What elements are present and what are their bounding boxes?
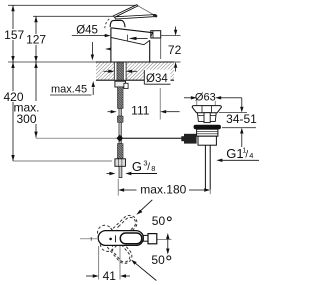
handle loop top edge: [138, 6, 155, 16]
dimension 111: [108, 111, 111, 113]
spout inner line: [111, 37, 144, 44]
dimension 157: [12, 5, 14, 29]
svg-text:34-51: 34-51: [226, 112, 257, 126]
rod junction dot: [116, 135, 123, 142]
waste lower body: [198, 136, 216, 145]
svg-text:/: /: [245, 149, 248, 160]
deck cross-section: [96, 62, 174, 80]
svg-text:G1: G1: [226, 146, 243, 161]
dimension 41: [98, 246, 100, 280]
extension line 420 bottom: [13, 160, 112, 162]
dimension 34-51: [229, 97, 242, 99]
label G1 1/4: [216, 159, 222, 162]
dashed lever rotated down: [94, 222, 134, 266]
svg-text:157: 157: [4, 28, 24, 42]
deck hole: [114, 63, 126, 80]
spout flow arrow: [135, 37, 148, 39]
extension line top of body (127): [33, 15, 119, 17]
tailpipe: [204, 145, 206, 189]
extension line deck top (left): [8, 61, 110, 63]
svg-text:G: G: [132, 159, 142, 174]
shank through deck: [117, 62, 124, 80]
svg-text:Ø45: Ø45: [76, 24, 98, 36]
hose column: [117, 87, 123, 109]
rod clamp: [184, 134, 197, 144]
cartridge tick: [126, 35, 128, 42]
svg-text:111: 111: [131, 103, 150, 117]
spout outlet extension line: [160, 38, 162, 59]
cartridge dome: [110, 20, 125, 27]
cartridge line: [115, 235, 117, 242]
svg-text:/: /: [147, 162, 150, 173]
handle lower blade: [115, 15, 156, 19]
svg-text:127: 127: [26, 33, 46, 47]
hose nut: [115, 159, 126, 167]
mounting nut: [115, 81, 126, 87]
hose tail: [119, 166, 122, 177]
svg-text:max.45: max.45: [51, 84, 87, 96]
dimension max.180: [117, 179, 119, 196]
extension line top of handle (157): [8, 4, 137, 6]
dashed lever rotated up: [97, 212, 140, 254]
dimension 127: [35, 16, 37, 34]
svg-text:Ø63: Ø63: [195, 91, 216, 103]
angle arrow lower: [136, 263, 157, 280]
svg-text:Ø34: Ø34: [146, 73, 168, 85]
angle arrow upper: [139, 200, 152, 212]
dimension max.300: [35, 62, 37, 101]
svg-text:300: 300: [16, 112, 36, 126]
waste upper body: [197, 129, 218, 136]
svg-text:50: 50: [152, 214, 166, 228]
aerator: [151, 31, 161, 38]
svg-text:4: 4: [249, 151, 253, 160]
label G3/8: [107, 173, 110, 175]
dimension 72: [161, 35, 181, 37]
lever slot: [120, 233, 142, 244]
handle loop end: [152, 13, 157, 18]
svg-text:max.180: max.180: [140, 183, 186, 197]
lever top view: [98, 231, 143, 246]
centerline left: [80, 238, 97, 240]
svg-text:41: 41: [103, 269, 117, 283]
label max.45: [50, 84, 91, 94]
body edge mark: [105, 48, 111, 51]
aerator swivel arrow: [167, 239, 169, 249]
aerator top: [148, 234, 157, 244]
waste seal ring: [194, 125, 221, 129]
centerline right: [157, 239, 172, 241]
D34 arrows: [104, 70, 109, 72]
label D34 box: [144, 70, 170, 85]
faucet body: [111, 28, 152, 62]
spout connector top: [143, 235, 148, 241]
pop-up waste dome: [192, 106, 221, 113]
waste neck: [197, 113, 216, 122]
extension line max.300 bottom / pop-up rod line: [36, 137, 117, 139]
svg-text:8: 8: [151, 164, 155, 173]
svg-text:72: 72: [168, 43, 182, 57]
pop-up rod horizontal: [123, 137, 190, 139]
dimension 420: [12, 62, 14, 91]
handle upper blade: [113, 5, 138, 18]
handle ghost dashes: [105, 19, 110, 28]
svg-text:50: 50: [151, 253, 165, 267]
